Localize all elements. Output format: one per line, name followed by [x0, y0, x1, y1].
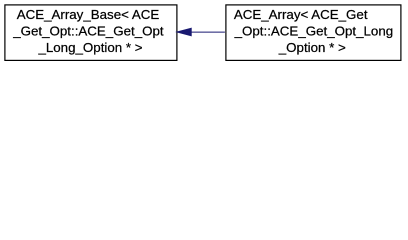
svg-text:_Option * >: _Option * > — [278, 40, 346, 55]
svg-text:_Long_Option * >: _Long_Option * > — [37, 40, 142, 55]
node label ACE_Array_Base line 2 — [12, 23, 164, 38]
svg-text:ACE_Array< ACE_Get: ACE_Array< ACE_Get — [234, 7, 368, 22]
node box ACE_Array_Base — [5, 5, 177, 61]
node label ACE_Array_Base line 3 — [37, 40, 142, 55]
svg-text:_Get_Opt::ACE_Get_Opt: _Get_Opt::ACE_Get_Opt — [12, 23, 164, 38]
node label ACE_Array line 3 — [278, 40, 346, 55]
svg-text:ACE_Array_Base< ACE: ACE_Array_Base< ACE — [17, 7, 160, 22]
node label ACE_Array_Base line 1 — [17, 7, 160, 22]
node box ACE_Array — [226, 5, 401, 61]
svg-text:_Opt::ACE_Get_Opt_Long: _Opt::ACE_Get_Opt_Long — [234, 23, 394, 38]
inheritance arrowhead — [177, 28, 191, 36]
node label ACE_Array line 1 — [234, 7, 368, 22]
inheritance edge line — [191, 31, 225, 33]
node label ACE_Array line 2 — [234, 23, 394, 38]
